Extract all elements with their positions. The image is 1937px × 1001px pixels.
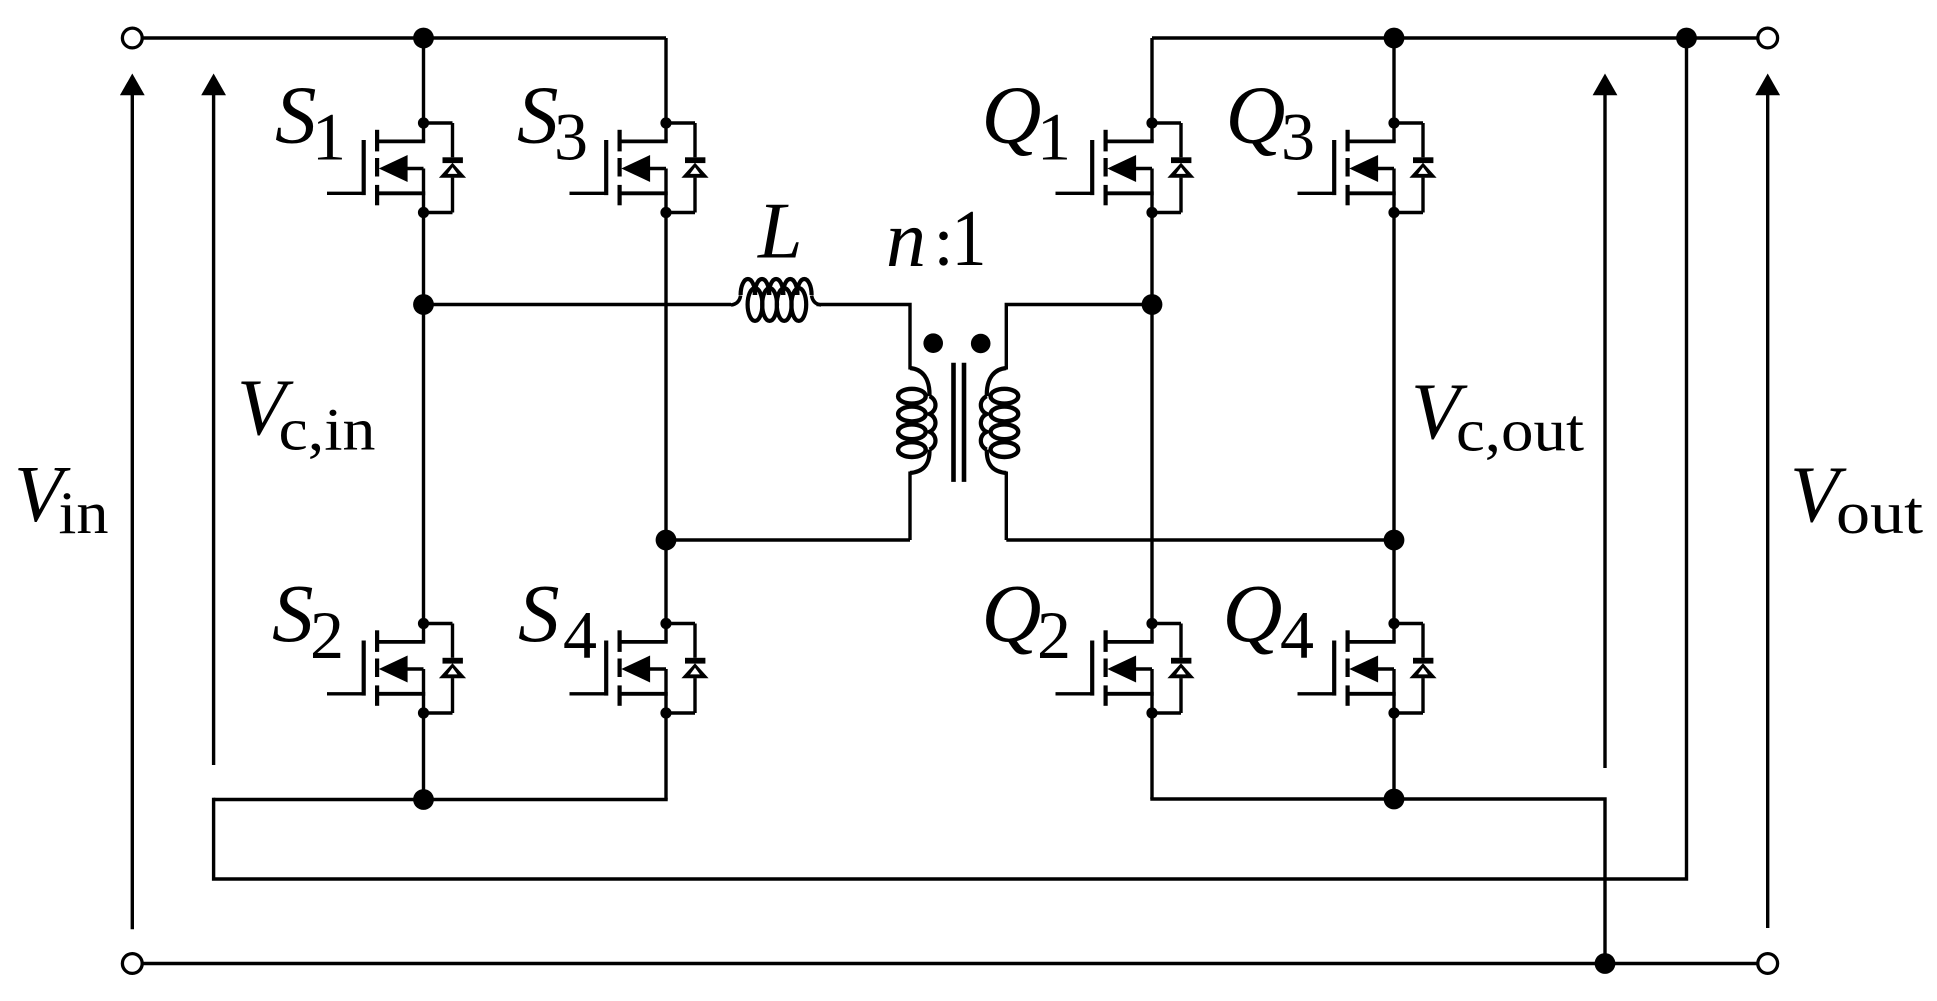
transistor Q3 bbox=[1298, 117, 1437, 218]
svg-text:L: L bbox=[757, 188, 803, 276]
inductor L bbox=[731, 279, 821, 321]
label V_c,in bbox=[237, 365, 376, 463]
wire Q1 drain leg bbox=[1150, 38, 1153, 123]
wire Q3 drain leg bbox=[1392, 38, 1395, 123]
wire crossover bus bbox=[214, 38, 1687, 879]
transformer T1 secondary winding bbox=[981, 368, 1018, 540]
svg-text:S: S bbox=[518, 567, 560, 659]
junction dot top rail Q3 bbox=[1384, 28, 1405, 49]
transistor S2 bbox=[327, 618, 466, 719]
transistor S1 bbox=[327, 117, 466, 218]
label S3 bbox=[517, 69, 588, 175]
svg-text:Q: Q bbox=[982, 567, 1042, 659]
wire Q2 source to bottom rail bbox=[1150, 713, 1153, 799]
label Q2 bbox=[982, 567, 1072, 673]
wire transformer secondary top to node C bbox=[1006, 305, 1152, 370]
svg-text:1: 1 bbox=[1037, 99, 1071, 175]
transistor S4 bbox=[570, 618, 709, 719]
wire top rail left bbox=[142, 36, 667, 39]
wire bottom output bbox=[142, 962, 1759, 965]
svg-text:2: 2 bbox=[1037, 597, 1071, 673]
label n : 1 bbox=[886, 195, 987, 284]
wire S3 drain leg bbox=[664, 38, 667, 123]
svg-text:c,in: c,in bbox=[279, 397, 376, 463]
label Q3 bbox=[1226, 69, 1316, 175]
junction node C bbox=[1142, 294, 1163, 315]
arrow V_out bbox=[1755, 74, 1780, 929]
terminal output positive bbox=[1758, 28, 1778, 48]
label L bbox=[757, 188, 803, 276]
wire node A to inductor bbox=[424, 303, 732, 306]
label V_c,out bbox=[1411, 368, 1584, 463]
svg-text:c,out: c,out bbox=[1456, 398, 1584, 464]
wire Q1 source to node C bbox=[1150, 213, 1153, 305]
transistor Q1 bbox=[1056, 117, 1195, 218]
label S4 bbox=[518, 567, 597, 673]
svg-text:S: S bbox=[272, 567, 314, 659]
arrow V_c,out bbox=[1593, 74, 1618, 769]
label S2 bbox=[272, 567, 344, 673]
label V_in bbox=[14, 451, 109, 546]
junction dot bottom output bbox=[1595, 953, 1616, 974]
svg-text:3: 3 bbox=[1281, 99, 1315, 175]
wire inductor to transformer primary bbox=[817, 305, 911, 370]
transformer phase dot primary bbox=[923, 333, 943, 353]
terminal output negative bbox=[1758, 954, 1778, 974]
wire S2 source to bottom rail bbox=[422, 713, 425, 800]
label V_out bbox=[1790, 452, 1923, 547]
wire right bridge bottom rail to output bbox=[1152, 797, 1605, 963]
transistor S3 bbox=[570, 117, 709, 218]
transformer phase dot secondary bbox=[971, 334, 991, 354]
svg-text:out: out bbox=[1836, 480, 1923, 546]
arrow V_c,in bbox=[201, 74, 226, 766]
wire S4 source to bottom rail bbox=[664, 713, 667, 800]
wire top rail right bbox=[1152, 36, 1758, 39]
wire left bridge bottom rail bbox=[214, 798, 666, 800]
label Q4 bbox=[1223, 567, 1315, 673]
svg-text:3: 3 bbox=[554, 99, 588, 175]
wire node A to S2 drain bbox=[422, 305, 425, 624]
transformer core bbox=[954, 363, 965, 482]
wire Q3 source to node D bbox=[1392, 213, 1395, 541]
wire S1 source to node A bbox=[422, 213, 425, 305]
junction node A bbox=[413, 294, 434, 315]
wire S1 drain leg bbox=[422, 38, 425, 123]
svg-text:1: 1 bbox=[952, 195, 987, 283]
svg-text:S: S bbox=[275, 69, 317, 161]
wire Q4 source to bottom rail bbox=[1392, 713, 1395, 799]
terminal input positive bbox=[122, 28, 142, 48]
svg-text:S: S bbox=[517, 69, 559, 161]
svg-text:Q: Q bbox=[1223, 567, 1283, 659]
wire transformer secondary bottom to node D bbox=[1006, 538, 1394, 541]
junction dot top rail S1 bbox=[413, 28, 434, 49]
terminal input negative bbox=[122, 954, 142, 974]
junction node B bbox=[656, 530, 677, 551]
junction dot bottom rail S2 bbox=[413, 789, 434, 810]
svg-text:Q: Q bbox=[1226, 69, 1286, 161]
transistor Q2 bbox=[1056, 618, 1195, 719]
junction dot bottom rail Q4 bbox=[1384, 789, 1405, 810]
transformer T1 primary winding bbox=[898, 368, 935, 540]
label S1 bbox=[275, 69, 346, 175]
wire S3 source to node B bbox=[664, 213, 667, 541]
junction node D bbox=[1384, 530, 1405, 551]
svg-text:4: 4 bbox=[563, 597, 597, 673]
wire node B to S4 drain bbox=[664, 540, 667, 624]
svg-text:Q: Q bbox=[982, 69, 1042, 161]
label Q1 bbox=[982, 69, 1072, 175]
arrow V_in bbox=[120, 74, 145, 930]
junction dot top rail crossover bbox=[1676, 28, 1697, 49]
svg-text:in: in bbox=[59, 480, 109, 546]
svg-text:4: 4 bbox=[1280, 597, 1314, 673]
transistor Q4 bbox=[1298, 618, 1437, 719]
wire node C to Q2 drain bbox=[1150, 305, 1153, 624]
svg-text:2: 2 bbox=[310, 597, 344, 673]
wire node B to transformer primary bottom bbox=[666, 538, 910, 541]
svg-text:n: n bbox=[886, 196, 926, 284]
wire node D to Q4 drain bbox=[1392, 540, 1395, 624]
svg-text:1: 1 bbox=[312, 99, 346, 175]
